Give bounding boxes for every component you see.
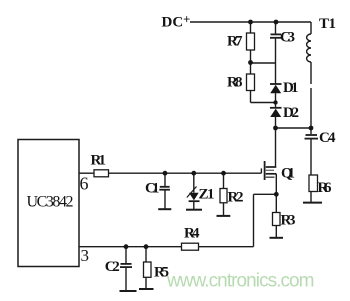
svg-text:R3: R3 (281, 213, 296, 229)
svg-text:D2: D2 (283, 105, 299, 121)
svg-text:DC+: DC+ (162, 13, 191, 31)
svg-text:R4: R4 (184, 225, 200, 241)
svg-text:D1: D1 (283, 80, 299, 96)
svg-text:R1: R1 (91, 153, 107, 169)
svg-text:Q1: Q1 (281, 166, 295, 182)
svg-text:R2: R2 (228, 189, 244, 205)
svg-text:R8: R8 (227, 75, 243, 91)
svg-text:R6: R6 (318, 180, 333, 196)
svg-text:UC3842: UC3842 (27, 194, 74, 211)
svg-text:www.cntronics.com: www.cntronics.com (166, 271, 315, 292)
svg-text:R7: R7 (227, 34, 243, 50)
svg-text:3: 3 (81, 246, 90, 265)
svg-text:C2: C2 (105, 259, 120, 275)
svg-text:Z1: Z1 (199, 187, 215, 203)
svg-text:6: 6 (80, 174, 89, 194)
svg-text:C1: C1 (145, 180, 160, 196)
svg-text:T1: T1 (319, 16, 336, 32)
svg-text:C4: C4 (319, 130, 336, 146)
svg-text:C3: C3 (280, 30, 295, 46)
